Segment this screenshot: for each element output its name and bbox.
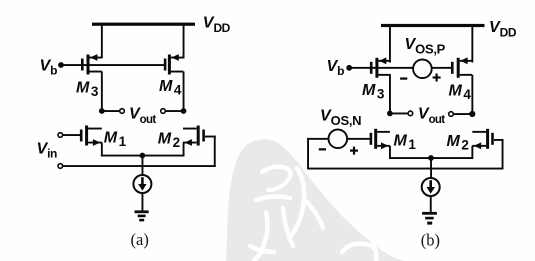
current source ISS (b) — [422, 178, 440, 196]
terminal Vin+ (a) — [58, 133, 63, 138]
wire tail node to current source — [142, 156, 144, 176]
wire M1 source down — [101, 143, 103, 157]
ground (b) — [422, 212, 437, 225]
wire right Vout terminal to node — [166, 110, 184, 112]
node output right (a) — [181, 108, 187, 114]
terminal Vin- (a) — [58, 164, 63, 169]
nmos M2 (b, mirrored) — [472, 129, 494, 149]
svg-text:(b): (b) — [421, 230, 440, 249]
nmos M1 — [80, 126, 102, 146]
nmos M1 (b) — [370, 129, 390, 149]
wire right vertical of input loop to M2 gate (b) — [502, 139, 504, 170]
terminal Vout left (b) — [408, 111, 413, 116]
node output left (b) — [387, 111, 393, 117]
svg-text:M3: M3 — [362, 82, 385, 102]
offset source VOS,P — [413, 60, 432, 79]
svg-text:Vout: Vout — [129, 105, 156, 126]
svg-text:M4: M4 — [159, 78, 182, 98]
ground (a) — [135, 210, 149, 221]
wire left vertical of input loop (b) — [307, 138, 309, 169]
svg-text:M1: M1 — [394, 133, 417, 153]
nmos M2 (mirrored) — [183, 126, 205, 146]
wire M3 source to rail (b) — [389, 26, 391, 63]
pmos M3 (b) — [370, 57, 391, 77]
svg-text:(a): (a) — [131, 230, 149, 249]
svg-text:Vout: Vout — [418, 106, 445, 127]
wire tail node to current source (b) — [430, 158, 432, 178]
wire M4 drain to output node (b) — [471, 75, 473, 115]
node tail (b) — [428, 155, 434, 161]
wire Vb to M3 gate and to offset source (b) — [349, 67, 413, 69]
plus sign VOS,P — [433, 74, 441, 82]
node tail (a) — [140, 153, 146, 159]
wire M3 drain down to output node — [101, 72, 103, 112]
wire M4 source to rail (b) — [471, 26, 473, 63]
wire node to left Vout terminal — [102, 110, 120, 112]
node output right (b) — [469, 111, 475, 117]
wire M4 drain down to output node — [183, 72, 185, 112]
wire Vin+ to M1 gate — [63, 134, 82, 136]
pmos M3 — [81, 54, 102, 74]
wire M4 source to rail — [183, 24, 185, 58]
wire M1 source down (b) — [389, 146, 391, 159]
wire gate bus Vb to M3,M4 (a) — [61, 64, 166, 66]
terminal Vout right (b) — [449, 112, 454, 117]
wire M2 gate to bottom input line — [205, 136, 216, 138]
wire M3 source to rail — [101, 24, 103, 58]
svg-text:VOS,N: VOS,N — [320, 108, 361, 129]
wire M2 source down — [183, 143, 185, 157]
wire M2 gate stub (b) — [494, 139, 504, 141]
terminal Vout right (a) — [161, 109, 166, 114]
wire common source rail (b) — [389, 157, 473, 159]
svg-text:M4: M4 — [449, 83, 472, 103]
minus sign VOS,N — [319, 148, 326, 150]
wire bottom input loop (b) — [307, 168, 503, 170]
VDD rail (b) — [381, 24, 485, 27]
terminal Vb (a) — [58, 62, 64, 68]
wire left corner to offset source (b) — [307, 138, 328, 140]
minus sign VOS,P — [400, 77, 407, 79]
watermark blob — [226, 139, 404, 261]
current source ISS (a) — [133, 175, 151, 193]
svg-text:VOS,P: VOS,P — [405, 36, 446, 57]
terminal Vb (b) — [346, 65, 352, 71]
wire Vin- long bottom line (a) — [63, 165, 216, 167]
offset source VOS,N — [329, 130, 348, 149]
wire right Vout terminal to node (b) — [454, 113, 473, 115]
svg-text:M3: M3 — [76, 80, 99, 100]
plus sign VOS,N — [350, 147, 358, 155]
wire common source rail (a) — [101, 155, 185, 157]
pmos M4 — [164, 54, 183, 74]
svg-text:M2: M2 — [447, 133, 469, 153]
svg-text:Vin: Vin — [37, 141, 58, 161]
pmos M4 (b) — [451, 57, 472, 77]
VDD rail (a) — [92, 23, 195, 26]
node output left (a) — [99, 108, 105, 114]
wire current source to ground (a) — [142, 193, 144, 211]
svg-text:M1: M1 — [104, 130, 127, 150]
wire current source to ground (b) — [430, 196, 432, 213]
svg-text:M2: M2 — [158, 130, 180, 150]
svg-text:VDD: VDD — [489, 19, 517, 40]
wire M2 source down (b) — [471, 146, 473, 159]
wire M3 drain to output node (b) — [389, 75, 391, 115]
svg-text:VDD: VDD — [203, 15, 231, 36]
terminal Vout left (a) — [120, 109, 125, 114]
svg-text:Vb: Vb — [327, 58, 345, 78]
wire offset source to M1 gate (b) — [347, 138, 370, 140]
svg-text:Vb: Vb — [40, 57, 58, 77]
wire node to left Vout terminal (b) — [390, 113, 408, 115]
wire offset source to M4 gate (b) — [432, 67, 453, 69]
